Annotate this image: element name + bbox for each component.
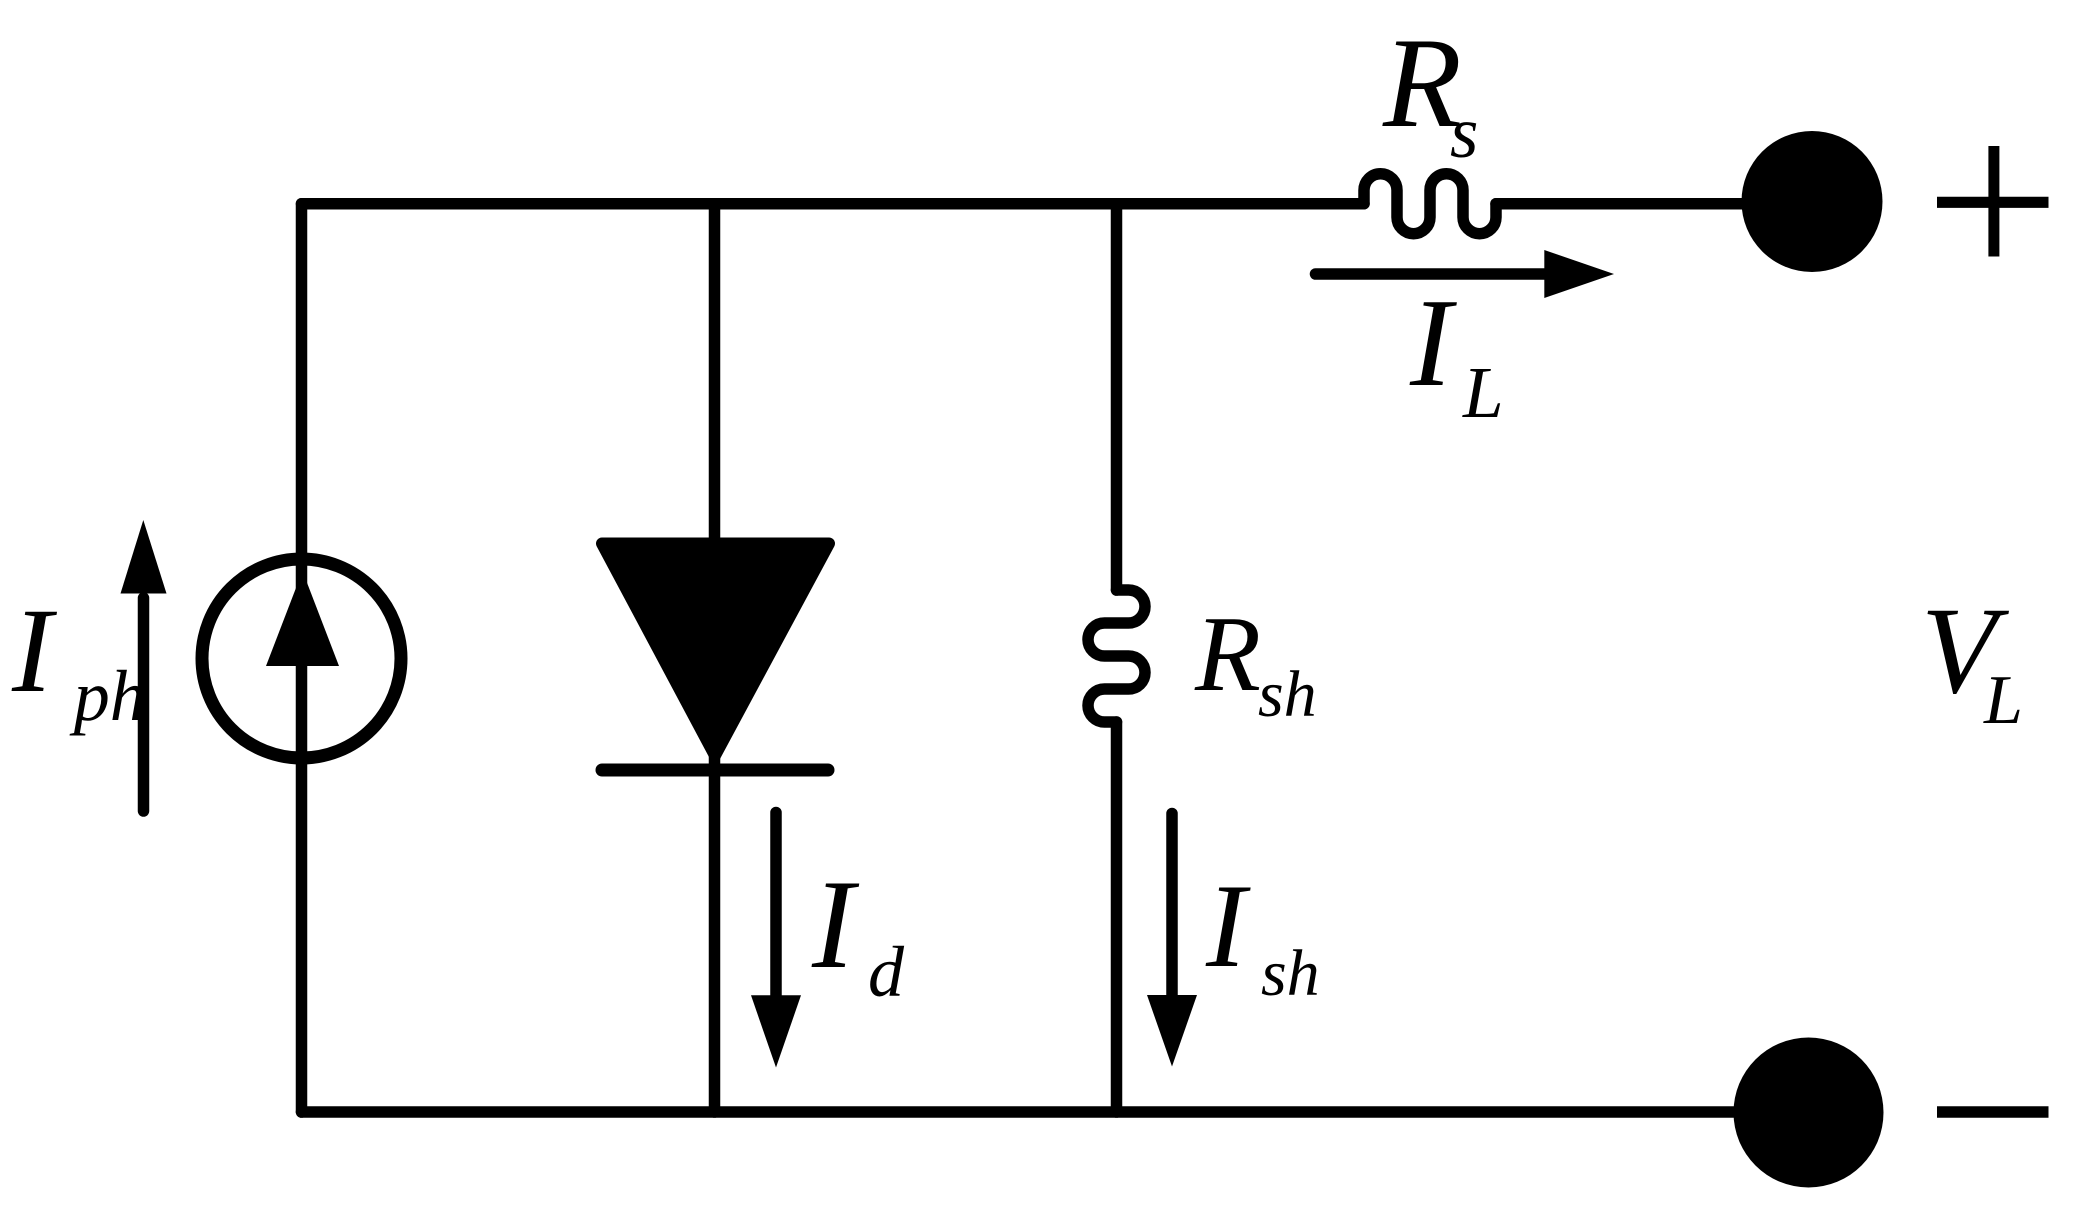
wire top bus (left node to Rs): [302, 198, 1365, 210]
IL current arrow: [1316, 250, 1615, 298]
node: positive output terminal dot: [1742, 131, 1883, 272]
svg-text:I: I: [11, 584, 58, 718]
svg-text:sh: sh: [1258, 658, 1317, 731]
svg-text:s: s: [1450, 92, 1478, 173]
label VL: [1921, 581, 2023, 739]
Id current arrow: [751, 813, 801, 1068]
svg-text:ph: ph: [69, 656, 146, 736]
wire diode branch bottom: [709, 755, 721, 1112]
node: negative output terminal dot: [1734, 1038, 1884, 1188]
resistor Rs (series resistor squiggle): [1364, 174, 1496, 234]
label Ish: [1205, 859, 1320, 1010]
label IL: [1409, 274, 1504, 433]
svg-text:I: I: [1409, 274, 1457, 413]
Iph current arrow: [121, 520, 167, 811]
current source arrow head: [266, 571, 339, 666]
svg-text:L: L: [1983, 662, 2023, 739]
wire Rsh branch top: [1111, 204, 1123, 590]
label Iph: [11, 584, 146, 736]
svg-text:L: L: [1462, 352, 1504, 433]
wire Rs to positive terminal: [1496, 198, 1812, 210]
label Id: [811, 855, 905, 1012]
wire diode branch top: [709, 204, 721, 560]
label Rsh: [1194, 595, 1317, 731]
svg-text:sh: sh: [1261, 937, 1320, 1010]
wire Rsh branch bottom: [1111, 722, 1123, 1112]
current source Iph circle: [202, 559, 401, 758]
wire left branch (Iph branch vertical): [296, 204, 308, 1112]
minus sign: [1937, 1106, 2049, 1118]
svg-text:R: R: [1194, 595, 1261, 714]
wire bottom bus: [302, 1106, 1810, 1118]
plus sign: [1937, 146, 2049, 257]
Ish current arrow: [1147, 814, 1197, 1067]
svg-text:I: I: [811, 855, 860, 995]
svg-text:I: I: [1205, 859, 1251, 992]
resistor Rsh (shunt resistor squiggle): [1088, 590, 1145, 722]
svg-text:d: d: [868, 932, 905, 1012]
diode D cathode bar: [602, 764, 828, 777]
label Rs: [1382, 11, 1478, 173]
diode D triangle: [602, 544, 829, 756]
